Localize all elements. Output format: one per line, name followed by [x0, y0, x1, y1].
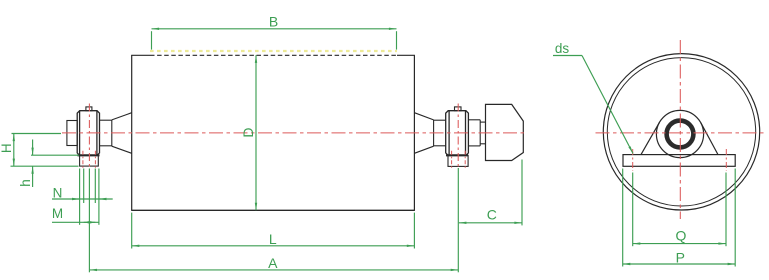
centerline left bearing vertical	[88, 104, 90, 170]
right stub shaft	[434, 120, 446, 146]
right foot	[448, 155, 468, 166]
dimension A	[89, 168, 458, 272]
dimension D	[255, 55, 257, 210]
svg-text:H: H	[0, 143, 14, 153]
right cone	[414, 113, 433, 154]
centerline end view vertical	[679, 40, 681, 219]
right foot bolt lines	[452, 151, 466, 170]
dimension Q	[633, 173, 726, 247]
drum lagging (yellow dashed)	[150, 50, 397, 52]
N M extension lines	[80, 169, 99, 225]
svg-text:Q: Q	[676, 228, 687, 244]
left foot	[80, 155, 99, 166]
svg-text:C: C	[487, 207, 497, 223]
svg-text:B: B	[269, 14, 278, 30]
left cone	[112, 113, 132, 154]
label ds with leader	[553, 56, 633, 154]
left bearing block	[77, 111, 99, 156]
bracket right leg	[701, 123, 718, 155]
plate bolt lines	[633, 149, 727, 171]
centerline right bearing vertical	[457, 104, 459, 170]
dimension P	[623, 169, 736, 267]
left foot bolt lines	[83, 151, 96, 170]
bearing ring (dark)	[667, 121, 694, 148]
bracket left leg	[641, 122, 660, 154]
svg-text:A: A	[268, 255, 278, 271]
centerline end view horizontal	[596, 132, 766, 134]
dimension H	[11, 134, 79, 167]
svg-text:N: N	[53, 186, 63, 201]
drum body	[131, 55, 415, 210]
dimension N	[52, 198, 113, 200]
dimension h	[31, 140, 79, 188]
motor block	[486, 104, 524, 160]
left grease nipple	[86, 107, 92, 111]
centerline main axis	[62, 132, 528, 134]
svg-text:P: P	[676, 249, 685, 265]
end view inner circle	[607, 58, 755, 206]
bracket base plate	[623, 155, 735, 167]
bearing boss circle	[656, 110, 703, 157]
dimension L	[132, 213, 415, 249]
svg-text:ds: ds	[555, 41, 570, 56]
svg-text:L: L	[269, 231, 277, 247]
dimension M	[52, 221, 99, 223]
svg-text:D: D	[240, 128, 256, 138]
dimension B	[152, 29, 397, 50]
right bearing block	[446, 111, 469, 156]
right grease nipple	[455, 107, 462, 111]
right shaft step A	[468, 120, 480, 146]
dimension C	[459, 160, 522, 226]
svg-text:h: h	[18, 179, 33, 187]
right shaft step B	[480, 122, 485, 144]
end view outer circle	[603, 54, 759, 210]
left shaft end	[67, 121, 77, 146]
left stub shaft	[100, 120, 112, 146]
svg-text:M: M	[52, 206, 63, 221]
